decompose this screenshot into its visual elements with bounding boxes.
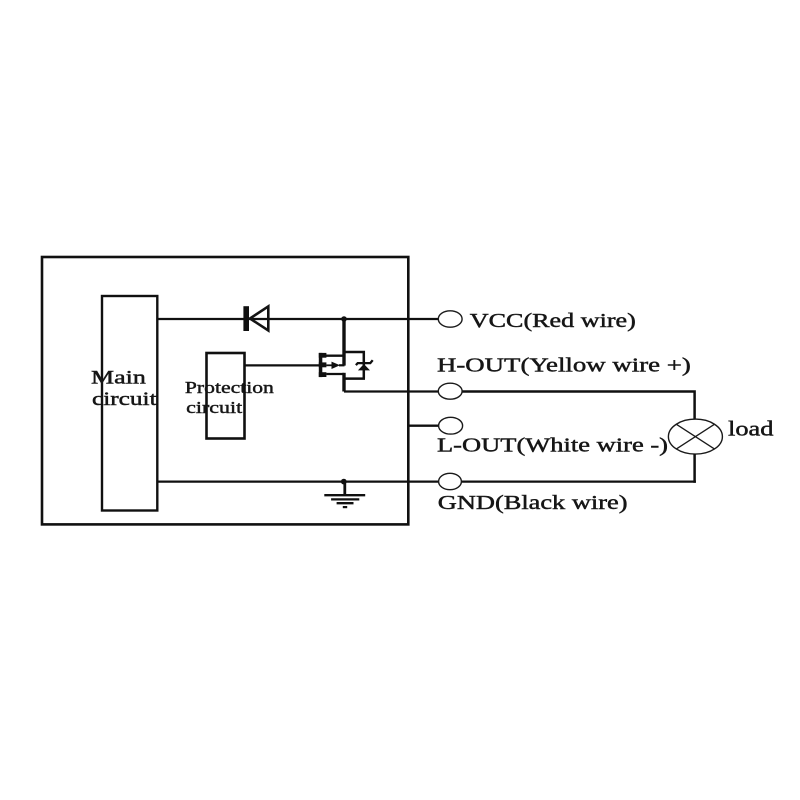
transistor Q1 source dash lead — [326, 373, 344, 375]
ground symbol — [324, 482, 365, 508]
wire source vertical — [342, 373, 345, 392]
node junction GND/ground — [341, 479, 347, 485]
node junction VCC/drain — [341, 316, 347, 322]
terminal GND — [439, 473, 462, 489]
wire H-OUT net terminal to load corner — [461, 392, 694, 420]
terminal H-OUT — [438, 383, 462, 399]
transistor Q1 gate bar and channel — [319, 353, 327, 377]
label VCC — [470, 310, 636, 332]
label load — [728, 416, 774, 440]
protection circuit block — [185, 353, 275, 439]
wire VCC net from main circuit to terminal — [157, 318, 438, 320]
label L-OUT — [437, 435, 668, 457]
label GND — [438, 492, 628, 514]
svg-text:circuit: circuit — [92, 389, 158, 410]
load lamp symbol — [668, 419, 722, 454]
wire L-OUT stub — [408, 425, 438, 427]
transistor Q1 body arrow — [326, 362, 344, 369]
svg-text:GND(Black wire): GND(Black wire) — [438, 492, 628, 514]
transistor Q1 drain dash lead — [326, 355, 344, 357]
terminal VCC — [438, 311, 462, 327]
enclosure outer box — [42, 257, 408, 524]
svg-text:VCC(Red wire): VCC(Red wire) — [470, 310, 636, 332]
diode D1 cathode bar — [243, 306, 249, 331]
svg-text:load: load — [728, 416, 774, 440]
wire H-OUT net from source to terminal — [344, 390, 439, 392]
diode D1 triangle — [250, 306, 268, 330]
wire drain vertical — [342, 319, 345, 366]
wire body-diode branch bottom — [344, 377, 365, 380]
svg-text:H-OUT(Yellow wire +): H-OUT(Yellow wire +) — [437, 355, 691, 377]
main circuit block — [91, 296, 158, 511]
body diode triangle — [358, 364, 370, 370]
terminal L-OUT — [439, 417, 463, 434]
svg-text:L-OUT(White wire -): L-OUT(White wire -) — [437, 435, 668, 457]
body diode cathode bar with zener tails — [356, 360, 373, 365]
wire GND net terminal to load — [461, 480, 696, 482]
wire body-diode branch top — [344, 352, 364, 379]
svg-text:Protection: Protection — [185, 378, 275, 397]
wire load bottom to GND net — [693, 454, 696, 483]
svg-text:Main: Main — [91, 367, 146, 388]
svg-text:circuit: circuit — [186, 398, 242, 417]
wire GND net — [157, 480, 438, 482]
wire gate from protection circuit — [245, 364, 320, 366]
label H-OUT — [437, 355, 691, 377]
